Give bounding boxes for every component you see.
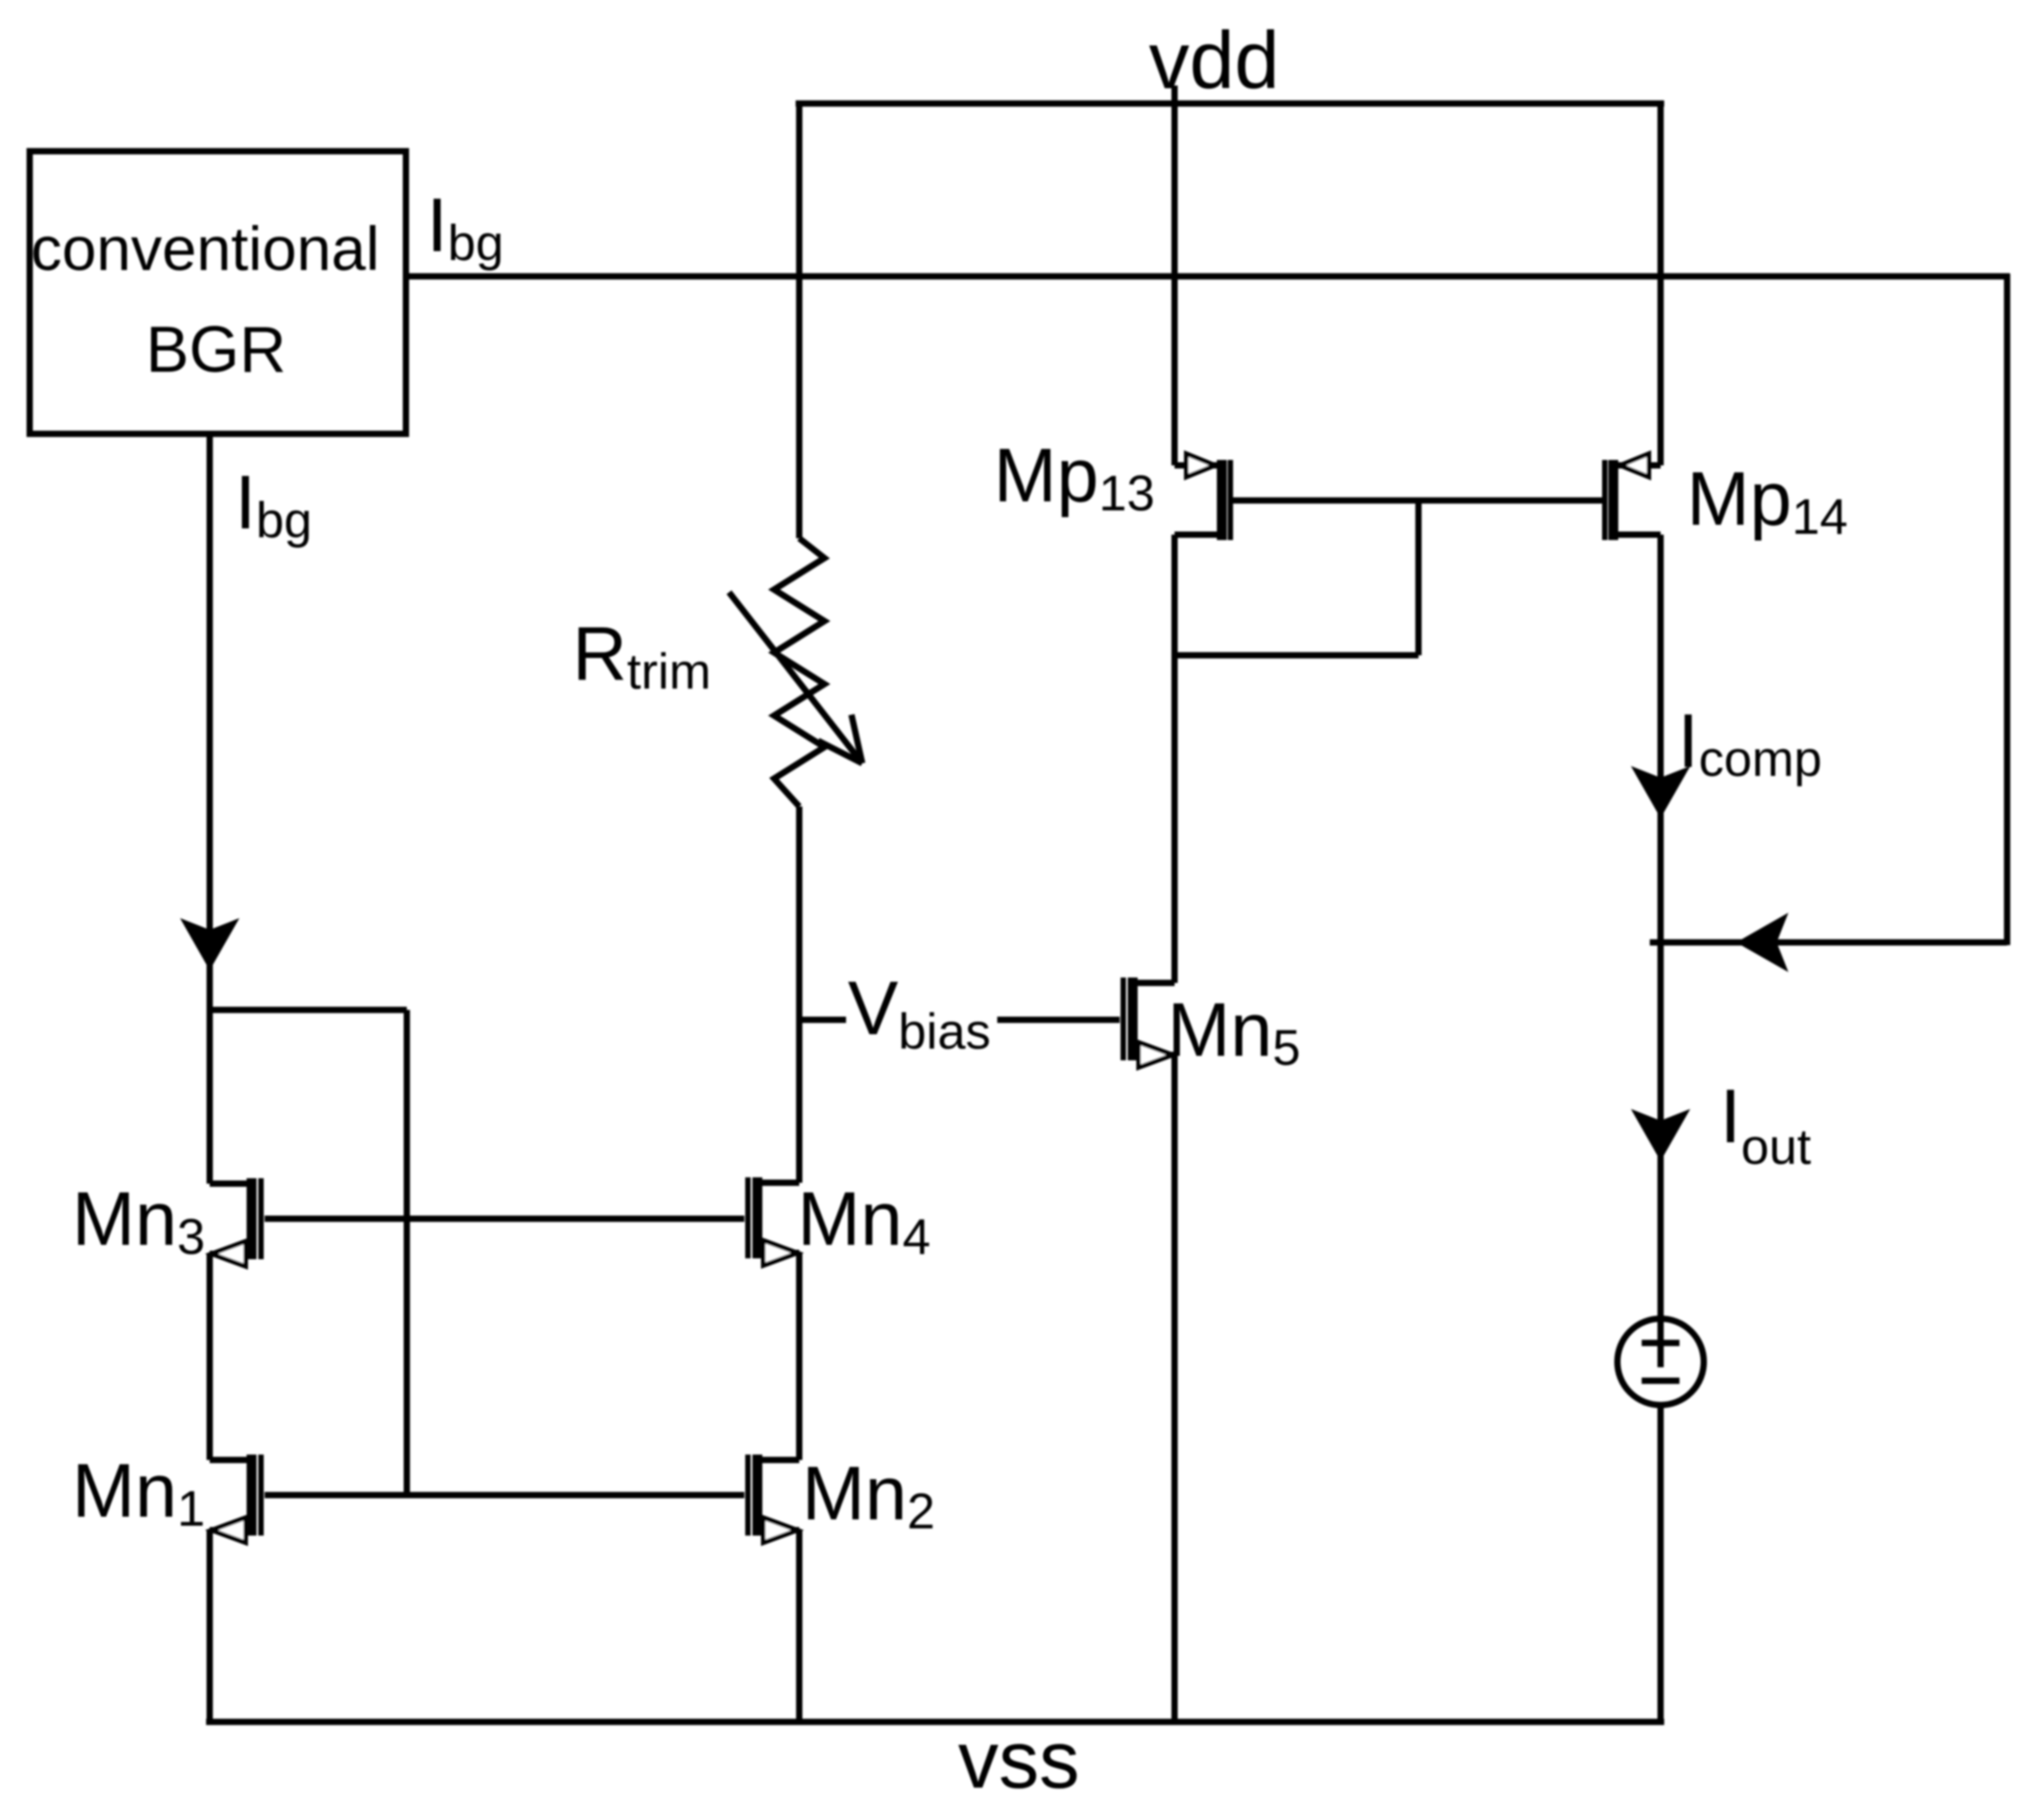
svg-text:vss: vss — [959, 1716, 1080, 1806]
svg-text:BGR: BGR — [146, 314, 286, 386]
svg-text:conventional: conventional — [31, 214, 379, 284]
svg-text:vdd: vdd — [1148, 16, 1279, 106]
